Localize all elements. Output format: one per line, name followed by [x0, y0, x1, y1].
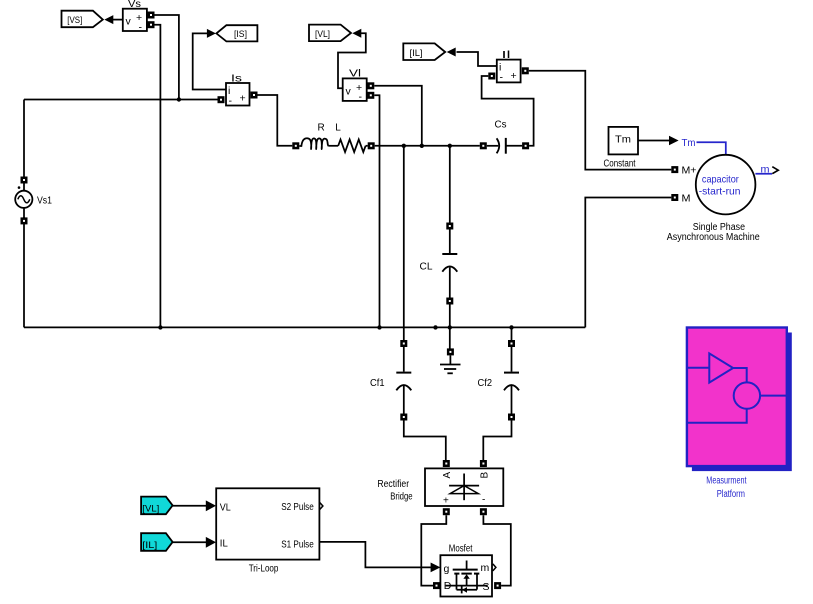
port Vl.+: [367, 82, 374, 89]
triloop output chevron S2: [320, 502, 323, 509]
junction bus Vl-: [377, 325, 381, 329]
platform icon feedback line: [687, 409, 747, 423]
wire Vs.v to [VS] with arrowhead: [104, 15, 123, 24]
port Cf1 top: [400, 340, 407, 347]
voltage measurement Vs: [123, 0, 147, 33]
svg-text:g: g: [444, 563, 450, 575]
svg-text:R: R: [318, 123, 325, 134]
from tag [VL] cyan: [141, 497, 173, 515]
wire Vl.v to [VL] with arrowhead: [338, 29, 366, 89]
svg-text:Asynchronous Machine: Asynchronous Machine: [667, 232, 760, 243]
port RL left: [292, 142, 299, 149]
resistor zigzag glyph: [338, 140, 365, 153]
svg-text:v: v: [346, 86, 352, 98]
current measurement Is: [226, 74, 250, 108]
junction bus mid: [433, 325, 437, 329]
wire bridge + to mosfet D: [421, 515, 446, 585]
wire Cf2 top from bus: [511, 327, 513, 340]
single phase asynchronous machine circle: [696, 155, 756, 215]
wire Cf2 bottom to bridge B: [483, 421, 511, 461]
mosfet output chevron m: [493, 564, 496, 571]
measurement platform block: [687, 328, 787, 467]
wire Is.i to [IS] with arrowhead: [193, 29, 226, 90]
wire Vs1 port stubs: [23, 183, 25, 192]
svg-text:B: B: [479, 472, 490, 479]
from tag [IL] cyan: [141, 533, 173, 551]
svg-text:-: -: [359, 91, 363, 103]
svg-text:[VL]: [VL]: [315, 29, 330, 40]
svg-text:Constant: Constant: [604, 159, 636, 170]
bus wire bottom: [24, 326, 585, 328]
junction bus Vs-: [158, 325, 162, 329]
port bridge + bottom: [443, 508, 450, 515]
voltage measurement Vl: [343, 69, 367, 104]
wire Cf1 top from main row crossing bus: [403, 146, 405, 341]
svg-text:+: +: [240, 93, 246, 105]
junction CL node: [448, 144, 452, 148]
svg-text:-: -: [500, 72, 504, 84]
svg-text:[IL]: [IL]: [142, 540, 157, 551]
wire Vl.- down to bus: [374, 95, 379, 327]
port M: [671, 194, 678, 201]
platform icon elbow to scope: [733, 368, 747, 382]
svg-text:Cs: Cs: [495, 120, 507, 131]
svg-text:Platform: Platform: [717, 489, 745, 500]
mosfet block: [440, 544, 492, 597]
svg-text:m: m: [761, 164, 770, 176]
port RL right: [368, 142, 375, 149]
svg-text:[VS]: [VS]: [67, 15, 82, 26]
machine output m blue wire: [755, 164, 772, 176]
svg-text:Tm: Tm: [682, 137, 696, 149]
port Vs1 bottom: [21, 217, 28, 224]
port Il.-: [488, 73, 495, 80]
svg-text:[IS]: [IS]: [234, 29, 247, 40]
wire S1 pulse to mosfet g with arrowhead: [319, 542, 440, 572]
svg-text:-start-run: -start-run: [699, 185, 741, 197]
junction bus Cf2: [509, 325, 513, 329]
platform label: [706, 476, 746, 501]
svg-text:Measurment: Measurment: [706, 476, 746, 487]
port Vs1 top: [21, 177, 28, 184]
label Rectifier Bridge: [377, 479, 413, 503]
subsystem Tri-Loop: [216, 488, 319, 574]
port bridge A top: [443, 460, 450, 467]
port bridge - bottom: [480, 508, 487, 515]
svg-text:Mosfet: Mosfet: [449, 544, 473, 555]
port ground: [447, 348, 454, 355]
svg-text:Tri-Loop: Tri-Loop: [249, 564, 279, 575]
constant block Tm: [604, 127, 639, 170]
wire bus to ground port: [449, 327, 451, 349]
svg-text:L: L: [335, 123, 341, 134]
machine label: [667, 222, 760, 243]
port Il.+: [522, 67, 529, 74]
port mosfet D: [433, 582, 440, 589]
svg-text:Rectifier: Rectifier: [377, 479, 409, 490]
platform icon input line: [687, 367, 709, 369]
port Vs.-: [148, 21, 155, 28]
svg-text:[IL]: [IL]: [410, 48, 423, 59]
wire Cf1 bottom to bridge A: [404, 421, 446, 461]
svg-text:Tm: Tm: [615, 135, 631, 146]
platform icon scope circle: [734, 382, 760, 408]
rectifier bridge block: [425, 468, 503, 506]
port Cf1 bottom: [400, 414, 407, 421]
mosfet icon glyph: [446, 561, 488, 594]
port Is.-: [218, 96, 225, 103]
port bridge B top: [480, 460, 487, 467]
ground symbol: [440, 355, 461, 373]
node A junction: [177, 97, 181, 101]
wire Vs1 top to node row: [23, 100, 25, 184]
wire Il.i to [IL] with arrowhead: [447, 48, 497, 67]
svg-text:A: A: [442, 472, 453, 479]
svg-text:S1 Pulse: S1 Pulse: [281, 539, 314, 551]
port CL top: [446, 223, 453, 230]
wire [IL] to triloop IL with arrowhead: [173, 537, 216, 548]
wire bridge - to mosfet S: [483, 515, 510, 585]
svg-text:Vs1: Vs1: [37, 195, 52, 206]
svg-text:+: +: [443, 496, 449, 507]
wire [VL] to triloop VL with arrowhead: [173, 500, 216, 511]
capacitor CL glyph: [442, 230, 457, 299]
machine output chevron: [772, 167, 778, 174]
port Cf2 bottom: [508, 414, 515, 421]
wire Vs.+ down to node A: [155, 15, 179, 100]
inductor coil glyph: [299, 138, 328, 149]
goto tag [VS]: [62, 11, 103, 28]
capacitor Cf1 glyph: [396, 347, 411, 414]
wire Cs right up to Il.-: [482, 76, 534, 146]
wire Is.+ to RL branch: [258, 95, 293, 146]
wire Vs.- down to bus: [155, 25, 161, 328]
junction Vl+ node: [420, 144, 424, 148]
measurement platform shadow: [692, 333, 792, 472]
port Cs left: [480, 142, 487, 149]
svg-text:-: -: [139, 21, 143, 33]
wire coil to resistor: [329, 145, 339, 147]
port Vl.-: [367, 92, 374, 99]
wire CL top from main row: [449, 146, 451, 223]
wire main row RL to Cs: [375, 145, 480, 147]
port Is.+: [251, 92, 258, 99]
junction Cf1 top node: [402, 144, 406, 148]
junction bus CL/ground: [448, 325, 452, 329]
wire resistor to port: [366, 145, 368, 147]
svg-text:CL: CL: [420, 262, 433, 273]
svg-text:M+: M+: [682, 165, 697, 177]
port Cs right: [522, 142, 529, 149]
current measurement Il: [497, 50, 521, 84]
capacitor Cs glyph: [487, 138, 522, 154]
svg-text:Cf1: Cf1: [370, 378, 385, 389]
platform icon amplifier triangle: [709, 353, 733, 382]
wire Vl.+ down to main row: [374, 86, 422, 146]
svg-text:Bridge: Bridge: [390, 492, 413, 503]
goto tag [IS]: [216, 25, 257, 41]
AC voltage source Vs1: [15, 186, 52, 208]
port mosfet S: [494, 582, 501, 589]
wire node row to Is.-: [24, 99, 218, 101]
port CL bottom: [446, 298, 453, 305]
blue wire Tm to machine circle: [697, 142, 726, 155]
svg-text:Cf2: Cf2: [478, 378, 493, 389]
goto tag [IL]: [403, 43, 445, 60]
svg-text:S: S: [483, 581, 490, 593]
svg-text:[VL]: [VL]: [142, 503, 159, 514]
svg-text:m: m: [481, 562, 490, 574]
svg-text:VL: VL: [220, 502, 231, 514]
svg-text:+: +: [511, 70, 517, 82]
diode glyph inside bridge: [449, 474, 479, 501]
wire Constant to machine Tm with arrowhead: [638, 136, 679, 146]
wire machine M to bus: [585, 198, 671, 328]
svg-text:IL: IL: [220, 538, 228, 550]
platform icon output line: [760, 395, 787, 397]
goto tag [VL]: [309, 25, 351, 41]
wire Vs1 bottom to bus: [23, 217, 25, 327]
port M+: [671, 166, 678, 173]
svg-text:-: -: [229, 95, 233, 107]
svg-text:capacitor: capacitor: [702, 173, 739, 185]
svg-text:M: M: [682, 192, 691, 204]
wire CL bottom to bus: [449, 305, 451, 328]
svg-text:S2 Pulse: S2 Pulse: [281, 501, 314, 513]
port Vs.+: [148, 12, 155, 19]
svg-text:v: v: [126, 16, 132, 28]
wire Il.+ to machine M+: [529, 71, 672, 170]
port Cf2 top: [508, 340, 515, 347]
capacitor Cf2 glyph: [504, 347, 519, 414]
svg-text:-: -: [482, 495, 485, 506]
